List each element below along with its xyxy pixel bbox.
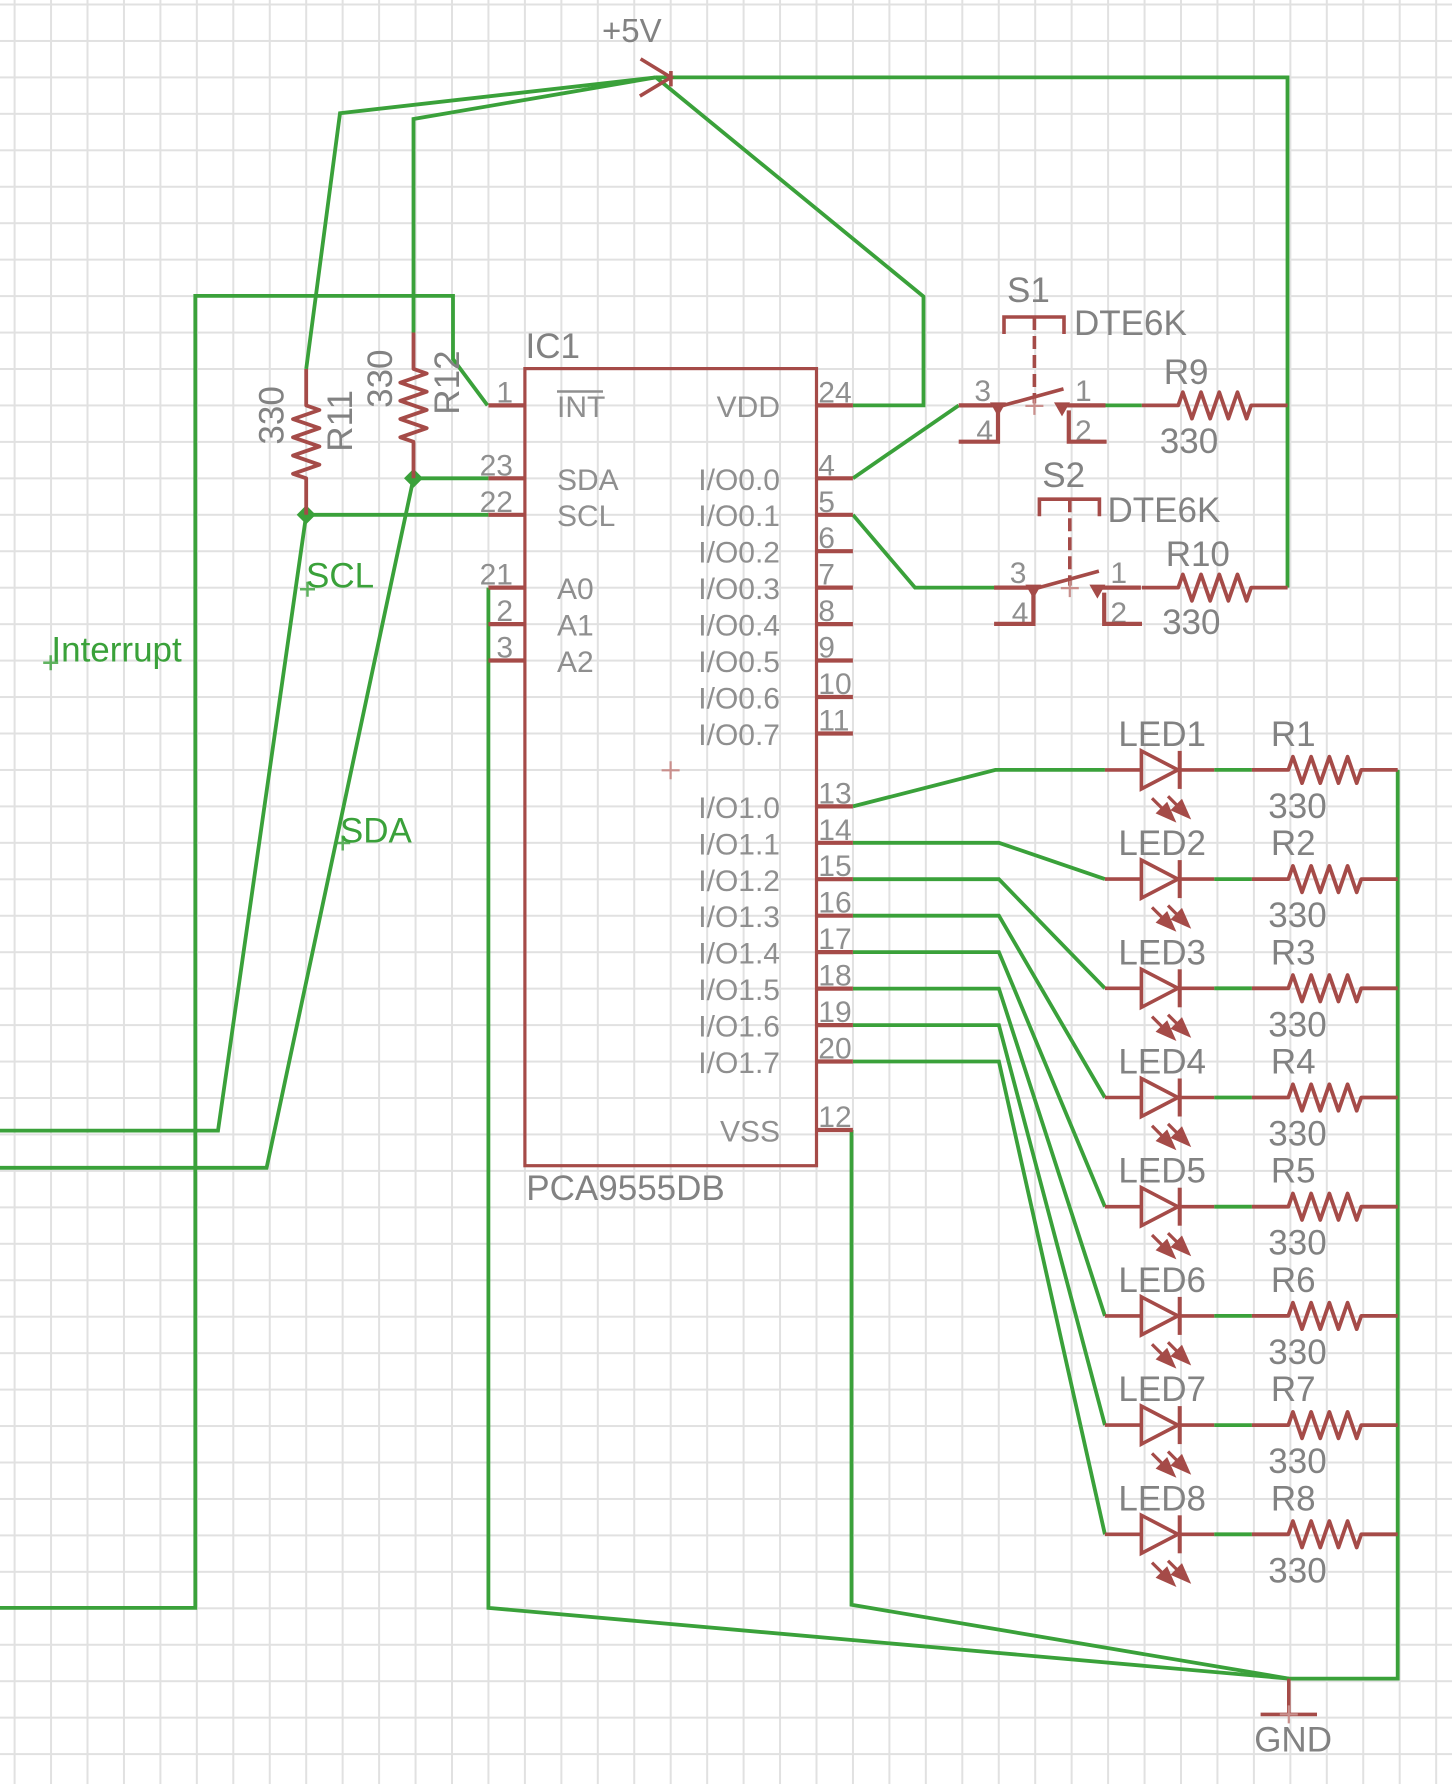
- svg-text:17: 17: [818, 923, 851, 956]
- svg-text:16: 16: [818, 887, 851, 920]
- svg-text:330: 330: [1268, 1551, 1326, 1590]
- svg-text:8: 8: [818, 595, 835, 628]
- svg-text:330: 330: [1268, 1005, 1326, 1044]
- svg-text:3: 3: [1010, 557, 1027, 590]
- svg-text:330: 330: [361, 349, 400, 407]
- svg-text:R10: R10: [1166, 535, 1230, 574]
- svg-text:330: 330: [1268, 1333, 1326, 1372]
- svg-text:I/O1.0: I/O1.0: [698, 792, 780, 825]
- svg-text:LED5: LED5: [1118, 1152, 1206, 1191]
- svg-text:A2: A2: [557, 646, 594, 679]
- svg-text:I/O0.7: I/O0.7: [698, 719, 780, 752]
- svg-text:1: 1: [496, 376, 513, 409]
- svg-text:R9: R9: [1164, 353, 1209, 392]
- svg-text:7: 7: [818, 559, 835, 592]
- svg-text:1: 1: [1075, 375, 1092, 408]
- svg-text:22: 22: [480, 486, 513, 519]
- svg-text:Interrupt: Interrupt: [51, 630, 182, 669]
- svg-text:23: 23: [480, 449, 513, 482]
- svg-text:R11: R11: [321, 390, 360, 452]
- svg-text:I/O1.3: I/O1.3: [698, 901, 780, 934]
- svg-text:LED1: LED1: [1118, 715, 1206, 754]
- svg-text:24: 24: [818, 376, 851, 409]
- svg-text:5: 5: [818, 486, 835, 519]
- svg-text:SDA: SDA: [557, 464, 619, 497]
- svg-text:VSS: VSS: [720, 1116, 780, 1149]
- svg-text:330: 330: [1268, 1442, 1326, 1481]
- svg-text:2: 2: [496, 595, 513, 628]
- svg-text:330: 330: [252, 386, 291, 444]
- svg-text:R12: R12: [428, 350, 467, 414]
- svg-text:R3: R3: [1271, 933, 1316, 972]
- svg-text:330: 330: [1268, 1115, 1326, 1154]
- svg-text:1: 1: [1110, 557, 1127, 590]
- svg-text:PCA9555DB: PCA9555DB: [526, 1169, 724, 1208]
- svg-text:SCL: SCL: [557, 500, 615, 533]
- svg-text:3: 3: [496, 632, 513, 665]
- svg-text:6: 6: [818, 522, 835, 555]
- svg-text:A1: A1: [557, 610, 594, 643]
- svg-text:I/O1.2: I/O1.2: [698, 865, 780, 898]
- svg-text:R6: R6: [1271, 1261, 1316, 1300]
- svg-text:R7: R7: [1271, 1370, 1316, 1409]
- svg-text:R1: R1: [1271, 715, 1316, 754]
- svg-text:S2: S2: [1042, 456, 1085, 495]
- svg-text:IC1: IC1: [526, 327, 580, 366]
- svg-text:21: 21: [480, 559, 513, 592]
- svg-text:11: 11: [818, 705, 849, 738]
- svg-text:330: 330: [1160, 422, 1218, 461]
- svg-text:I/O0.4: I/O0.4: [698, 610, 780, 643]
- svg-text:20: 20: [818, 1033, 851, 1066]
- svg-text:330: 330: [1162, 603, 1220, 642]
- svg-text:I/O1.1: I/O1.1: [698, 828, 780, 861]
- svg-text:I/O0.5: I/O0.5: [698, 646, 780, 679]
- svg-text:14: 14: [818, 814, 851, 847]
- svg-text:DTE6K: DTE6K: [1074, 304, 1187, 343]
- svg-text:R4: R4: [1271, 1043, 1316, 1082]
- svg-text:I/O1.6: I/O1.6: [698, 1011, 780, 1044]
- svg-text:I/O0.2: I/O0.2: [698, 537, 780, 570]
- svg-text:A0: A0: [557, 573, 594, 606]
- svg-text:R2: R2: [1271, 824, 1316, 863]
- svg-text:I/O1.5: I/O1.5: [698, 974, 780, 1007]
- svg-text:9: 9: [818, 632, 835, 665]
- svg-text:VDD: VDD: [717, 391, 780, 424]
- svg-text:I/O0.3: I/O0.3: [698, 573, 780, 606]
- svg-text:19: 19: [818, 996, 851, 1029]
- svg-text:LED4: LED4: [1118, 1043, 1206, 1082]
- svg-text:SDA: SDA: [340, 811, 413, 850]
- svg-text:S1: S1: [1007, 271, 1050, 310]
- svg-text:LED2: LED2: [1118, 824, 1206, 863]
- svg-text:LED8: LED8: [1118, 1479, 1206, 1518]
- svg-text:10: 10: [818, 668, 851, 701]
- svg-text:LED7: LED7: [1118, 1370, 1206, 1409]
- svg-text:I/O0.0: I/O0.0: [698, 464, 780, 497]
- svg-text:LED6: LED6: [1118, 1261, 1206, 1300]
- svg-text:330: 330: [1268, 1224, 1326, 1263]
- svg-text:LED3: LED3: [1118, 933, 1206, 972]
- svg-text:INT: INT: [557, 391, 605, 424]
- svg-text:I/O0.1: I/O0.1: [698, 500, 780, 533]
- svg-text:I/O1.7: I/O1.7: [698, 1047, 780, 1080]
- svg-text:3: 3: [974, 375, 991, 408]
- svg-text:18: 18: [818, 960, 851, 993]
- svg-text:12: 12: [818, 1101, 851, 1134]
- svg-text:330: 330: [1268, 787, 1326, 826]
- svg-text:R8: R8: [1271, 1479, 1316, 1518]
- svg-text:+5V: +5V: [602, 12, 662, 49]
- svg-text:I/O1.4: I/O1.4: [698, 938, 780, 971]
- svg-text:R5: R5: [1271, 1152, 1316, 1191]
- svg-text:I/O0.6: I/O0.6: [698, 683, 780, 716]
- svg-text:4: 4: [818, 449, 835, 482]
- svg-text:330: 330: [1268, 896, 1326, 935]
- svg-text:15: 15: [818, 850, 851, 883]
- svg-text:DTE6K: DTE6K: [1108, 491, 1221, 530]
- svg-text:SCL: SCL: [306, 557, 374, 596]
- svg-text:GND: GND: [1254, 1721, 1332, 1760]
- svg-text:13: 13: [818, 777, 851, 810]
